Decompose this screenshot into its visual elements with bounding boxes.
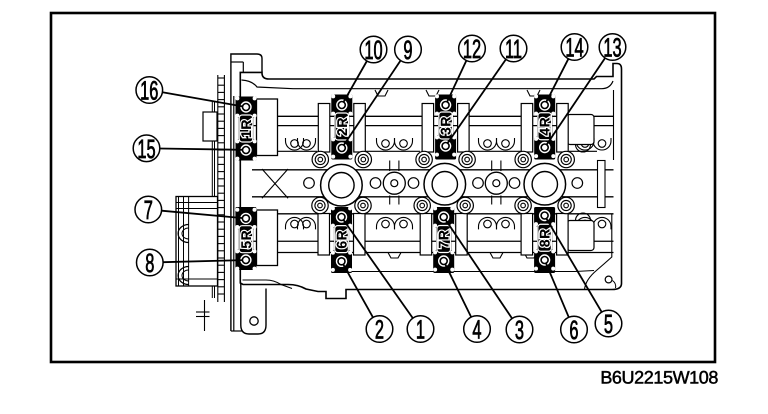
bucket hex bottom row x506: [502, 220, 510, 228]
bucket hex top row x404: [400, 140, 408, 148]
VVT housing vertical B: [183, 197, 185, 287]
svg-text:6: 6: [569, 315, 578, 345]
cam tower bottom-right of cap x444: [456, 214, 468, 256]
camshaft cap 5R: [235, 207, 256, 271]
small hole x414: [408, 178, 419, 189]
oil pipe line A: [196, 311, 210, 313]
right side cavity upper: [567, 115, 594, 145]
svg-text:4: 4: [472, 315, 481, 345]
mid deck rail lower: [252, 196, 614, 198]
tiny arc right of hole: [613, 281, 616, 289]
valve bucket arc top row x386: [377, 138, 395, 150]
leader line callout 12: [447, 61, 467, 103]
right cavity arc upper: [576, 145, 591, 153]
svg-text:16: 16: [140, 76, 158, 106]
cam tower top-left of cap x446: [422, 104, 434, 153]
chain tensioner body: [203, 112, 217, 141]
bucket hex top row x294: [291, 140, 299, 148]
svg-text:7R: 7R: [436, 230, 452, 249]
svg-text:11: 11: [505, 34, 522, 64]
boss lower-left of cap x444: [414, 197, 430, 213]
valve bucket arc top row x404: [395, 138, 413, 150]
camshaft cap 3R: [435, 94, 456, 159]
svg-text:9: 9: [403, 35, 412, 65]
timing chain ladder: [218, 75, 225, 302]
tower web line C: [470, 150, 521, 152]
tower web line D: [569, 150, 597, 152]
boss upper-right of cap x446: [459, 151, 475, 167]
chain cover bottom: [231, 330, 242, 332]
cam tower bottom-left of cap x444: [420, 214, 432, 256]
VVT left bump upper: [178, 225, 188, 243]
right inner vertical upper: [613, 90, 615, 160]
callout 13: [599, 33, 626, 63]
VVT housing vertical C: [188, 197, 190, 287]
svg-text:1R: 1R: [238, 119, 254, 138]
svg-text:10: 10: [364, 35, 382, 65]
bucket hex top row x488: [484, 140, 492, 148]
bucket hex top row x585: [581, 140, 589, 148]
valve bucket arc top row x294: [286, 138, 304, 150]
cylinder bore 2: [424, 163, 466, 205]
notch on top rail B: [426, 90, 439, 96]
svg-text:2: 2: [375, 315, 384, 345]
boss upper-left of cap x446: [416, 151, 432, 167]
chain guide rail B: [214, 102, 216, 298]
upper rail y88 with left step: [242, 80, 614, 89]
VVT left bump lower inner: [182, 270, 189, 281]
leader line callout 11: [447, 59, 506, 143]
rail y116: [243, 115, 614, 117]
leader line callout 13: [546, 58, 605, 145]
valve bucket arc bottom row x585: [576, 217, 594, 229]
VVT left bump lower: [178, 267, 188, 285]
VVT actuator housing: [176, 197, 218, 287]
cam tower bottom-left of cap x342: [318, 214, 330, 256]
cam tower bottom-right of cap x342: [354, 214, 366, 256]
cap block right of 1R: [257, 99, 278, 156]
boss lower-right of cap x545: [558, 197, 574, 213]
callout 15: [133, 134, 160, 164]
cap block right of 5R: [257, 210, 278, 266]
tower web line B: [366, 150, 420, 152]
bucket hex bottom row x294: [291, 220, 299, 228]
bottom foot lug: [241, 283, 266, 334]
callout 3: [506, 315, 533, 345]
callout 11: [500, 34, 527, 64]
leader line callout 3: [445, 220, 512, 319]
callout 8: [137, 248, 164, 278]
bucket hex bottom row x386: [382, 220, 390, 228]
cam tower top-right of cap x342: [354, 104, 366, 153]
camshaft cap 4R: [534, 94, 555, 159]
cylinder head outer silhouette: [240, 64, 621, 299]
leader line callout 10: [343, 61, 367, 102]
callout 12: [459, 34, 486, 64]
valve bucket arc bottom row x506: [497, 217, 515, 229]
svg-text:5: 5: [604, 309, 613, 339]
small hole x577: [572, 178, 583, 189]
leader line callout 16: [162, 92, 243, 106]
rail y125: [243, 125, 614, 127]
valve bucket arc top row x306: [298, 138, 316, 150]
boss upper-left of cap x545: [515, 151, 531, 167]
svg-text:8: 8: [145, 248, 154, 278]
leader line callout 15: [160, 149, 243, 150]
svg-text:12: 12: [463, 34, 481, 64]
camshaft cap 7R: [433, 206, 454, 273]
valve bucket arc top row x488: [479, 138, 497, 150]
svg-text:3: 3: [515, 315, 524, 345]
svg-text:5R: 5R: [238, 230, 254, 249]
inner bottom contour left: [243, 280, 293, 289]
svg-text:6R: 6R: [334, 230, 350, 249]
cam tower top-left of cap x342: [318, 104, 330, 153]
callout 14: [561, 33, 588, 63]
VVT housing vertical A: [178, 197, 180, 287]
chain cover left edge and top: [231, 54, 262, 331]
bucket hex top row x506: [502, 140, 510, 148]
boss lower-right of cap x444: [457, 197, 473, 213]
bucket hex top row x602: [598, 140, 606, 148]
boss lower-left of cap x545: [515, 197, 531, 213]
valve bucket arc bottom row x306: [298, 217, 316, 229]
callout 1: [407, 315, 434, 345]
VVT left bump upper inner: [182, 228, 189, 239]
cam tower bottom-left of cap x545: [521, 214, 533, 256]
chain cover inner top line: [231, 61, 243, 63]
foot bolt hole: [250, 317, 258, 325]
spark plug bore x394: [383, 161, 405, 205]
VVT housing line B: [176, 208, 218, 210]
valve bucket arc top row x585: [576, 138, 594, 150]
notch on bottom rail B: [490, 253, 503, 259]
bucket hex bottom row x488: [484, 220, 492, 228]
svg-text:2R: 2R: [334, 117, 350, 136]
figure border frame: [51, 13, 715, 362]
bottom right bolt hole: [605, 276, 612, 283]
chain cover inner step vertical: [242, 62, 244, 72]
bucket hex bottom row x585: [581, 220, 589, 228]
callout 4: [464, 315, 491, 345]
small hole x376: [370, 178, 381, 189]
svg-text:13: 13: [603, 33, 621, 63]
camshaft cap 1R: [235, 96, 256, 160]
leader line callout 8: [163, 260, 243, 262]
leader line callout 2: [343, 264, 373, 318]
chain cover inner vertical: [233, 96, 235, 331]
notch on bottom rail A: [388, 253, 401, 259]
right inner vertical lower: [611, 214, 613, 248]
valve bucket arc top row x506: [497, 138, 515, 150]
boss upper-right of cap x342: [355, 151, 371, 167]
oil pipe line B: [196, 316, 210, 318]
leader line callout 14: [546, 59, 568, 103]
inner bottom contour right: [350, 271, 594, 272]
small hole x309: [304, 178, 315, 189]
bucket hex bottom row x602: [598, 220, 606, 228]
leader line callout 1: [343, 220, 413, 319]
bucket hex top row x386: [382, 140, 390, 148]
lower left vertical: [204, 300, 206, 331]
leader line callout 4: [445, 264, 471, 317]
boss lower-right of cap x342: [355, 197, 371, 213]
camshaft cap 8R: [534, 207, 555, 273]
camshaft cap 6R: [331, 206, 352, 273]
callout 16: [136, 76, 163, 106]
cam tower top-right of cap x446: [458, 104, 470, 153]
callout 10: [360, 35, 387, 65]
rail y213: [243, 213, 614, 215]
svg-text:4R: 4R: [537, 117, 553, 136]
valve bucket arc top row x602: [593, 138, 611, 150]
right narrow pillar: [598, 161, 606, 208]
tower web line A: [277, 150, 317, 152]
leader line callout 5: [546, 218, 602, 312]
VVT housing line A: [176, 202, 218, 204]
cam tower top-left of cap x545: [521, 104, 533, 153]
notch on top rail C: [527, 90, 540, 96]
callout 7: [135, 195, 162, 225]
boss upper-right of cap x545: [558, 151, 574, 167]
right side cavity lower: [567, 221, 594, 251]
valve bucket arc bottom row x488: [479, 217, 497, 229]
svg-text:15: 15: [137, 134, 155, 164]
svg-text:7: 7: [144, 195, 153, 225]
callout 9: [395, 35, 422, 65]
diagonal rib A: [262, 169, 288, 198]
callout 6: [561, 315, 588, 345]
chain guide rail A: [211, 102, 213, 298]
inner corner S contour: [585, 248, 612, 290]
VVT housing line C: [176, 278, 218, 280]
leader line callout 7: [162, 211, 243, 218]
boss upper-left of cap x342: [312, 151, 328, 167]
svg-text:8R: 8R: [537, 228, 553, 247]
diagonal rib B: [262, 169, 288, 198]
bucket hex top row x306: [303, 140, 311, 148]
right cavity arc lower: [576, 213, 591, 220]
callout 2: [366, 315, 393, 345]
cylinder bore 3: [524, 163, 566, 205]
valve bucket arc bottom row x602: [593, 217, 611, 229]
bucket hex bottom row x306: [303, 220, 311, 228]
svg-text:1: 1: [416, 315, 425, 345]
boss lower-left of cap x342: [312, 197, 328, 213]
valve bucket arc bottom row x294: [286, 217, 304, 229]
svg-text:3R: 3R: [438, 116, 454, 135]
svg-text:14: 14: [565, 33, 583, 63]
rail y241: [243, 240, 614, 242]
svg-text:B6U2215W108: B6U2215W108: [600, 368, 718, 388]
bucket hex bottom row x404: [400, 220, 408, 228]
small hole x478: [473, 178, 484, 189]
callout 5: [595, 309, 622, 339]
cam tower top-right of cap x545: [557, 104, 569, 153]
small hole x514: [509, 178, 520, 189]
valve bucket arc bottom row x386: [377, 217, 395, 229]
valve bucket arc bottom row x404: [395, 217, 413, 229]
cylinder bore 1: [321, 164, 363, 206]
notch on top rail A: [375, 90, 388, 96]
notch on bottom rail C: [524, 253, 537, 259]
spark plug bore x496: [485, 161, 507, 205]
camshaft cap 2R: [331, 94, 352, 159]
mid deck rail upper: [252, 169, 614, 171]
leader line callout 6: [546, 263, 569, 318]
cam tower bottom-right of cap x545: [557, 214, 569, 256]
leader line callout 9: [344, 61, 401, 146]
rail y252: [243, 252, 614, 254]
